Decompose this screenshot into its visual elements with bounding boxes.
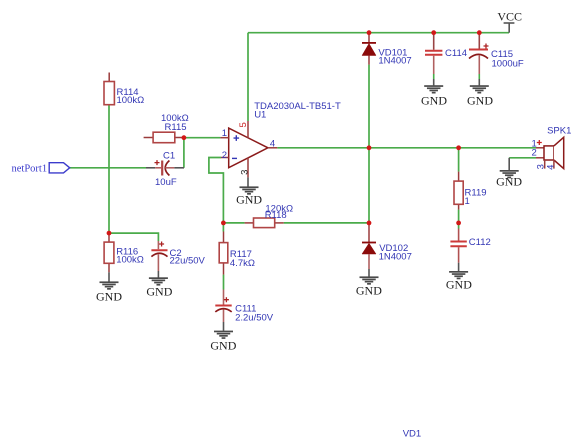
capacitor C112 <box>450 229 490 272</box>
capacitor C1 <box>146 151 184 189</box>
resistor R118 <box>245 203 294 227</box>
junction node C112 top <box>456 221 461 226</box>
svg-text:4: 4 <box>545 165 556 170</box>
resistor R114 <box>104 73 144 107</box>
svg-text:R115: R115 <box>165 122 187 133</box>
ground (R116) <box>96 281 122 303</box>
wire: output row down to R119 <box>458 148 460 172</box>
svg-text:100kΩ: 100kΩ <box>116 255 144 266</box>
svg-text:2: 2 <box>222 150 227 161</box>
svg-text:netPort1: netPort1 <box>12 163 48 174</box>
svg-text:GND: GND <box>210 339 236 353</box>
svg-text:VCC: VCC <box>497 10 522 24</box>
svg-text:R118: R118 <box>265 210 287 221</box>
wire: R117 bottom to C111 <box>223 275 225 290</box>
wire: R119 bottom to C112 node <box>458 210 460 229</box>
resistor R116 <box>104 233 144 282</box>
wire: S-bend from U1 pin2 to node A <box>209 158 224 223</box>
wire: output row down to feedback row <box>368 148 370 223</box>
svg-text:C1: C1 <box>163 151 175 162</box>
svg-text:GND: GND <box>467 93 493 107</box>
svg-text:1N4007: 1N4007 <box>379 251 412 262</box>
svg-text:22u/50V: 22u/50V <box>170 256 206 267</box>
wire: C1 right up to R115 node <box>183 138 185 168</box>
svg-text:2.2u/50V: 2.2u/50V <box>235 313 274 324</box>
svg-text:1000uF: 1000uF <box>492 59 524 70</box>
ground (SPK1) <box>496 170 522 188</box>
wire: R115 node to U1 pin1 <box>184 137 221 139</box>
svg-text:TDA2030AL-TB51-T: TDA2030AL-TB51-T <box>254 101 341 112</box>
wire: R118 left to node A <box>223 222 244 224</box>
junction node C114 top rail <box>431 30 436 35</box>
svg-text:1N4007: 1N4007 <box>378 55 411 66</box>
junction node at R115 output <box>182 135 187 140</box>
wire: R114 down through input row to R116 node <box>108 105 110 233</box>
ground (U1 pin 3) <box>236 186 262 206</box>
svg-text:1: 1 <box>465 196 470 207</box>
svg-text:2: 2 <box>532 148 537 159</box>
svg-text:GND: GND <box>356 284 382 298</box>
wire: feedback row R118 to VD102 node <box>284 222 369 224</box>
capacitor C2 <box>151 241 205 278</box>
wire: node A down to R117 <box>222 223 224 232</box>
ground (C111) <box>210 331 236 353</box>
junction node C115 top rail <box>477 30 482 35</box>
resistor R115 <box>144 113 189 143</box>
junction node VD101 output row <box>367 145 372 150</box>
wire: pin5 vertical up to rail <box>247 33 249 121</box>
capacitor C114 <box>425 33 467 86</box>
svg-text:GND: GND <box>496 174 522 188</box>
power VCC <box>497 10 522 33</box>
svg-text:GND: GND <box>421 93 447 107</box>
wire: VD101 lower link to output row <box>368 65 370 148</box>
junction node VD102 feedback row <box>367 221 372 226</box>
svg-text:C114: C114 <box>445 48 467 59</box>
ground (C114) <box>421 85 447 107</box>
svg-text:VD1: VD1 <box>403 429 421 440</box>
svg-text:SPK1: SPK1 <box>547 126 571 137</box>
svg-text:1: 1 <box>222 128 227 139</box>
junction node A (R117/R118) <box>221 221 226 226</box>
speaker SPK1 <box>532 126 572 170</box>
wire: SPK1 pin2 to ground corner <box>509 157 536 159</box>
wire: netPort1 to C1 <box>70 167 146 169</box>
svg-text:4: 4 <box>270 139 275 150</box>
ground (C115) <box>467 85 493 107</box>
svg-text:GND: GND <box>96 290 122 304</box>
junction node R116/C2 <box>107 231 112 236</box>
ground (C2) <box>146 277 172 298</box>
diode VD102 <box>362 223 412 277</box>
junction node R119 output row <box>456 145 461 150</box>
wire: R116 node right and down to C2 <box>109 233 158 241</box>
junction node VD101 top rail <box>367 30 372 35</box>
capacitor C115 <box>469 33 524 86</box>
wire: output row from U1 to SPK1 <box>277 147 536 149</box>
diode VD101 <box>362 33 412 67</box>
svg-text:GND: GND <box>446 278 472 292</box>
svg-text:C112: C112 <box>469 237 491 248</box>
svg-text:GND: GND <box>236 193 262 207</box>
wire: top VCC rail <box>248 32 509 34</box>
resistor R117 <box>219 232 255 275</box>
ground (C112) <box>446 271 472 292</box>
svg-text:100kΩ: 100kΩ <box>117 95 145 106</box>
svg-text:3: 3 <box>240 170 251 175</box>
ground (VD102) <box>356 276 382 297</box>
svg-text:GND: GND <box>146 285 172 299</box>
wire: SPK1 pin2 ground drop <box>508 158 510 170</box>
resistor R119 <box>454 172 487 210</box>
op-amp U1 <box>220 101 341 187</box>
port netPort1 <box>12 163 70 175</box>
svg-text:U1: U1 <box>254 110 266 121</box>
svg-text:5: 5 <box>238 122 249 127</box>
svg-text:10uF: 10uF <box>155 177 177 188</box>
svg-text:4.7kΩ: 4.7kΩ <box>230 258 255 269</box>
capacitor C111 <box>215 290 273 331</box>
